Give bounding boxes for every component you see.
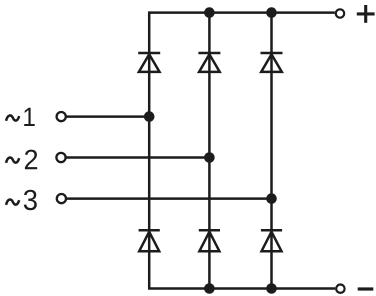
wire input 3 xyxy=(67,197,272,200)
label ~3 digit xyxy=(24,190,37,211)
wire column 1 vertical xyxy=(148,117,151,289)
junction dot bottom rail / column 2 xyxy=(204,283,215,294)
diode V4 (lower, column 1) xyxy=(139,230,160,251)
junction dot top rail / column 3 xyxy=(266,7,277,18)
diode V2 (upper, column 2) xyxy=(198,53,220,72)
diode V3 (upper, column 3) xyxy=(261,53,283,72)
junction dot input 3 / column 3 xyxy=(266,193,277,204)
terminal ~3 xyxy=(57,194,66,203)
label ~2 digit xyxy=(25,150,37,170)
label - (negative output) xyxy=(358,287,374,290)
junction dot top rail / column 2 xyxy=(204,7,215,18)
terminal ~2 xyxy=(56,153,65,162)
diode V5 (lower, column 2) xyxy=(199,230,220,251)
diode V6 (lower, column 3) xyxy=(261,230,282,251)
wire column 3 vertical xyxy=(270,13,273,289)
wire column 2 vertical xyxy=(208,13,211,289)
wire input 1 xyxy=(67,115,150,118)
terminal + output xyxy=(336,9,344,17)
terminal - output xyxy=(336,285,344,293)
junction dot input 2 / column 2 xyxy=(204,152,215,163)
terminal ~1 xyxy=(57,112,66,121)
label ~1 digit xyxy=(24,108,35,126)
wire bottom rail to - terminal xyxy=(148,287,335,290)
junction dot bottom rail / column 3 xyxy=(266,283,277,294)
label ~3 tilde xyxy=(6,200,19,205)
wire top rail to + terminal xyxy=(149,13,335,117)
junction dot input 1 / column 1 xyxy=(144,111,155,122)
label ~1 tilde xyxy=(6,115,19,120)
label ~2 tilde xyxy=(6,158,19,163)
diode V1 (upper, column 1) xyxy=(138,53,160,72)
label + (positive output) xyxy=(357,5,375,23)
wire input 2 xyxy=(66,156,209,159)
